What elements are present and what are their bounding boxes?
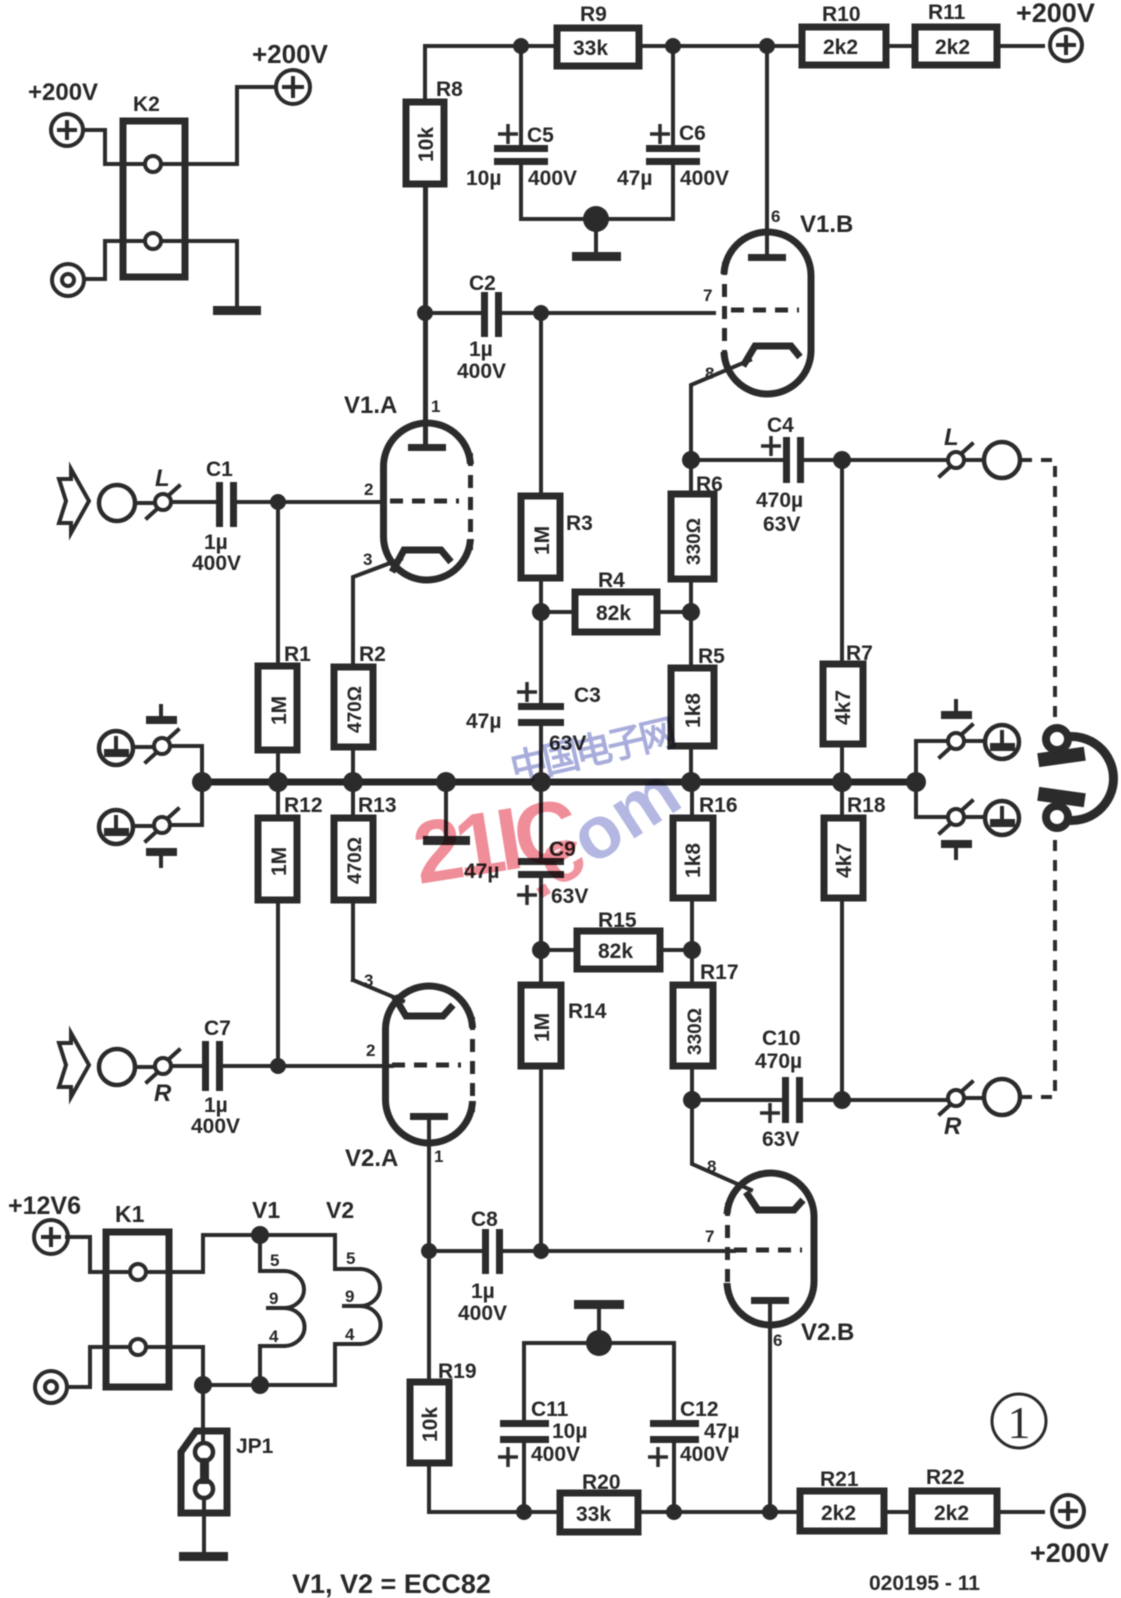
resistor R2	[334, 643, 386, 782]
wire R17 to V2.B cathode	[692, 1100, 751, 1190]
svg-text:1: 1	[431, 397, 440, 416]
node V1.B out	[682, 451, 700, 469]
node R17 C10	[683, 1091, 701, 1109]
output L socket	[984, 442, 1020, 478]
node heater bottom jumper	[194, 1376, 212, 1394]
wire 0V to K2 pin2	[84, 241, 123, 279]
svg-text:5: 5	[346, 1249, 355, 1268]
svg-text:1M: 1M	[268, 696, 291, 725]
svg-text:2k2: 2k2	[934, 1502, 969, 1525]
node heater top	[251, 1226, 269, 1244]
K2 pin 1	[145, 156, 161, 172]
0V terminal K2	[52, 264, 84, 296]
svg-text:C2: C2	[469, 272, 496, 295]
chassis terminal output L ground	[985, 725, 1019, 759]
node R3 R4	[532, 603, 550, 621]
wire +200V to K2	[83, 130, 123, 164]
resistor R17	[673, 950, 739, 1100]
svg-text:R16: R16	[699, 794, 738, 817]
wire output L ground stub	[964, 739, 984, 743]
input L arrow	[59, 469, 89, 533]
node C1 R1	[270, 494, 286, 510]
svg-text:C8: C8	[471, 1208, 498, 1231]
svg-text:1µ: 1µ	[469, 338, 493, 361]
+200V terminal left	[28, 79, 98, 146]
svg-text:V1, V2 = ECC82: V1, V2 = ECC82	[292, 1569, 491, 1598]
svg-text:82k: 82k	[598, 940, 633, 963]
svg-text:400V: 400V	[531, 1443, 580, 1466]
wire K1 pin2 to heater return	[169, 1347, 262, 1385]
heater V1	[252, 1197, 305, 1385]
svg-text:R11: R11	[928, 1, 966, 24]
wire bottom supply bus	[429, 1510, 1043, 1514]
svg-text:V2: V2	[326, 1197, 354, 1223]
resistor R20	[560, 1471, 638, 1532]
svg-text:47µ: 47µ	[466, 710, 501, 733]
svg-text:1M: 1M	[531, 1013, 554, 1042]
resistor R13	[334, 782, 397, 980]
svg-text:4: 4	[269, 1327, 279, 1346]
svg-text:V2.B: V2.B	[801, 1319, 854, 1346]
svg-text:R5: R5	[698, 645, 725, 668]
svg-text:V1: V1	[252, 1197, 280, 1223]
capacitor C3	[466, 612, 601, 782]
resistor R21	[800, 1468, 884, 1531]
node C4 R7	[833, 451, 851, 469]
svg-text:1µ: 1µ	[471, 1280, 495, 1303]
capacitor C8	[429, 1208, 734, 1325]
wire dashed headphone R	[1021, 835, 1055, 1097]
svg-text:R14: R14	[568, 1000, 607, 1023]
node C8 V2.A anode	[421, 1243, 437, 1259]
ground center bus	[423, 782, 470, 845]
V2.B cathode	[746, 1192, 803, 1210]
resistor R5	[671, 612, 725, 782]
wire output L pin to socket	[964, 458, 984, 462]
svg-text:47µ: 47µ	[704, 1420, 739, 1443]
wire center bus	[202, 779, 916, 786]
chassis terminal input L ground	[99, 731, 133, 765]
wire input L socket to pin	[136, 501, 155, 505]
svg-text:+200V: +200V	[28, 79, 98, 106]
triode V2.B	[705, 1157, 854, 1350]
svg-text:C4: C4	[767, 414, 794, 437]
connector pin input R ground	[146, 809, 178, 841]
capacitor C2	[425, 272, 724, 383]
node bus ground	[436, 772, 456, 792]
svg-text:47µ: 47µ	[617, 167, 652, 190]
svg-text:R1: R1	[284, 643, 311, 666]
V1.A cathode	[392, 550, 451, 572]
capacitor C4	[691, 414, 947, 536]
wire C5 C6 common	[521, 217, 673, 221]
svg-text:400V: 400V	[192, 552, 241, 575]
svg-text:1k8: 1k8	[682, 693, 705, 728]
svg-text:C11: C11	[531, 1398, 569, 1421]
svg-text:L: L	[155, 465, 170, 492]
wire input L ground to bus	[170, 746, 202, 782]
resistor R7	[823, 460, 873, 782]
chassis bar below input R ground	[146, 848, 177, 866]
node V1.B anode	[759, 38, 775, 54]
svg-text:C12: C12	[680, 1398, 719, 1421]
resistor R11	[915, 1, 997, 65]
resistor R12	[258, 782, 323, 1065]
svg-text:1µ: 1µ	[204, 1094, 228, 1117]
chassis bar below output R ground	[941, 840, 972, 858]
V1.A grid	[390, 499, 459, 504]
svg-text:400V: 400V	[458, 1302, 507, 1325]
connector K1	[106, 1201, 169, 1387]
svg-text:+200V: +200V	[252, 39, 329, 69]
+200V terminal top right	[1016, 0, 1095, 61]
node C2 R3	[533, 305, 549, 321]
svg-text:R: R	[154, 1080, 172, 1107]
wire output R pin to socket	[964, 1096, 984, 1100]
V2.B grid	[734, 1248, 802, 1253]
output R socket	[984, 1079, 1020, 1115]
svg-text:+200V: +200V	[1030, 1538, 1109, 1568]
node C7 R12	[270, 1058, 286, 1074]
svg-text:330Ω: 330Ω	[684, 518, 705, 565]
svg-text:63V: 63V	[763, 513, 800, 536]
headphone	[1037, 728, 1113, 828]
input R arrow	[59, 1033, 89, 1097]
chassis terminal input R ground	[99, 810, 133, 844]
resistor R14	[521, 950, 607, 1251]
svg-text:4k7: 4k7	[833, 843, 856, 878]
V1.B cathode	[743, 346, 800, 366]
svg-text:R8: R8	[436, 78, 463, 101]
V1.B grid	[731, 308, 799, 313]
svg-text:2k2: 2k2	[821, 1502, 856, 1525]
resistor R9	[557, 3, 639, 66]
svg-text:L: L	[944, 424, 959, 451]
K1 pin 1	[130, 1264, 146, 1280]
svg-text:JP1: JP1	[236, 1435, 274, 1458]
svg-text:2k2: 2k2	[935, 36, 970, 59]
node bus R2	[343, 772, 363, 792]
wire R13 to V2.A cathode	[353, 980, 403, 1001]
svg-text:1M: 1M	[268, 847, 291, 876]
wire K2 pin2 row	[123, 239, 185, 243]
connector pin R	[147, 1050, 179, 1107]
svg-text:020195 - 11: 020195 - 11	[869, 1572, 980, 1595]
capacitor C10	[692, 1027, 947, 1151]
ground K2	[213, 306, 261, 315]
node V2.B anode bus	[762, 1504, 778, 1520]
resistor R6	[671, 460, 723, 612]
node decoupling ground	[583, 206, 609, 232]
node bus R7	[832, 772, 852, 792]
svg-text:3: 3	[364, 971, 373, 990]
svg-text:400V: 400V	[680, 167, 729, 190]
V2.A anode	[410, 1113, 448, 1251]
svg-text:V1.A: V1.A	[344, 392, 397, 419]
triode V2.A	[345, 971, 482, 1172]
resistor R8	[406, 46, 463, 444]
svg-text:7: 7	[705, 1227, 714, 1246]
svg-text:C6: C6	[679, 122, 706, 145]
svg-text:470Ω: 470Ω	[345, 686, 366, 733]
svg-text:1: 1	[1008, 1397, 1031, 1448]
connector pin output L	[940, 424, 972, 476]
svg-text:2k2: 2k2	[823, 36, 858, 59]
svg-text:C7: C7	[204, 1017, 231, 1040]
wire +12V6 to K1	[67, 1237, 106, 1272]
node bus C3	[531, 772, 551, 792]
svg-text:+200V: +200V	[1016, 0, 1095, 28]
wire K2 pin1 to +200V top	[185, 87, 276, 164]
svg-text:R17: R17	[700, 961, 739, 984]
node bus R1	[268, 772, 288, 792]
svg-text:330Ω: 330Ω	[685, 1008, 706, 1055]
wire input R ground to bus	[170, 782, 202, 825]
connector pin output R ground	[940, 801, 972, 833]
triode V1.A	[344, 392, 480, 580]
svg-text:1M: 1M	[531, 526, 554, 555]
wire output grounds to bus	[916, 741, 947, 817]
wire V1.A cathode to R2	[353, 559, 401, 667]
+200V terminal top	[252, 39, 329, 104]
wire V1.B cathode to output node	[691, 360, 750, 460]
triode V1.B	[703, 207, 853, 394]
svg-text:8: 8	[707, 1157, 716, 1176]
input L socket	[99, 485, 135, 521]
capacitor C11	[498, 1343, 587, 1512]
wire C11 C12 common	[524, 1341, 674, 1345]
svg-text:+12V6: +12V6	[8, 1192, 81, 1220]
heater V2	[260, 1197, 381, 1385]
jumper JP1	[181, 1385, 274, 1513]
connector pin output L ground	[940, 725, 972, 757]
resistor R15	[541, 909, 692, 969]
svg-text:400V: 400V	[457, 360, 506, 383]
node C2 tap	[417, 305, 433, 321]
svg-text:2: 2	[364, 480, 373, 499]
svg-text:R6: R6	[696, 473, 723, 496]
svg-text:400V: 400V	[680, 1443, 729, 1466]
wire K1 pin1 to heater rail	[169, 1235, 260, 1272]
+200V terminal bottom right	[1030, 1495, 1109, 1568]
svg-text:V1.B: V1.B	[800, 211, 853, 238]
wire input L ground stub	[134, 745, 154, 749]
svg-text:10µ: 10µ	[552, 1420, 587, 1443]
node C10 R18	[833, 1091, 851, 1109]
node C6 top	[665, 38, 681, 54]
svg-text:4k7: 4k7	[832, 690, 855, 725]
wire top supply bus	[425, 44, 1043, 48]
capacitor C9	[464, 782, 588, 950]
node heater bottom	[251, 1376, 269, 1394]
svg-text:7: 7	[703, 286, 712, 305]
+12V6 terminal	[8, 1192, 81, 1254]
resistor R1	[258, 502, 311, 782]
wire K2 pin1 row	[123, 162, 185, 166]
node C12 bottom	[666, 1504, 682, 1520]
capacitor C12	[648, 1343, 739, 1512]
capacitor C7	[172, 1017, 392, 1138]
input R socket	[99, 1049, 135, 1085]
svg-text:K2: K2	[133, 93, 160, 116]
node R15 R16	[683, 941, 701, 959]
wire K1 pin1 row	[106, 1270, 169, 1274]
node bus right	[906, 772, 926, 792]
wire dashed headphone L	[1021, 460, 1055, 722]
svg-text:C1: C1	[206, 458, 233, 481]
V1.B anode	[748, 46, 786, 261]
K1 pin 2	[130, 1339, 146, 1355]
wire K1 pin2 row	[106, 1345, 169, 1349]
ground JP1	[179, 1513, 228, 1561]
svg-text:9: 9	[269, 1289, 278, 1308]
figure number 1	[992, 1394, 1046, 1448]
resistor R3	[521, 313, 593, 612]
resistor R4	[541, 569, 691, 632]
chassis terminal output R ground	[985, 801, 1019, 835]
connector pin output R	[940, 1082, 972, 1140]
connector pin L	[147, 465, 179, 518]
svg-text:R9: R9	[580, 3, 607, 26]
capacitor C5	[466, 46, 577, 219]
connector pin input L ground	[146, 730, 178, 762]
resistor R10	[802, 3, 886, 65]
K2 pin 2	[145, 233, 161, 249]
connector K2	[123, 93, 185, 277]
svg-text:3: 3	[363, 550, 372, 569]
svg-text:4: 4	[345, 1325, 355, 1344]
watermark 21IC	[406, 712, 694, 914]
svg-text:R2: R2	[359, 643, 386, 666]
svg-text:C3: C3	[574, 684, 601, 707]
capacitor C6	[617, 46, 729, 219]
capacitor C1	[172, 458, 384, 575]
wire output R ground stub	[964, 815, 984, 819]
svg-text:R19: R19	[438, 1360, 477, 1383]
svg-text:2: 2	[366, 1041, 375, 1060]
svg-text:10µ: 10µ	[466, 167, 501, 190]
svg-text:K1: K1	[115, 1201, 145, 1227]
svg-text:1µ: 1µ	[204, 531, 228, 554]
svg-text:400V: 400V	[528, 167, 577, 190]
svg-text:R: R	[944, 1113, 962, 1140]
resistor R16	[673, 782, 738, 950]
svg-text:9: 9	[345, 1287, 354, 1306]
node C8 R14	[533, 1243, 549, 1259]
svg-text:R18: R18	[847, 794, 886, 817]
node bus R5	[681, 772, 701, 792]
svg-text:1: 1	[434, 1147, 443, 1166]
resistor R22	[912, 1466, 997, 1531]
svg-text:C10: C10	[762, 1027, 801, 1050]
wire input R socket to pin	[136, 1065, 155, 1069]
node C5 top	[513, 38, 529, 54]
ground bottom decoupling	[574, 1300, 624, 1343]
svg-text:63V: 63V	[762, 1128, 799, 1151]
V2.B anode	[751, 1297, 789, 1512]
svg-text:10k: 10k	[415, 127, 438, 162]
chassis bar above input L ground	[146, 706, 177, 724]
resistor R19	[410, 1251, 477, 1512]
wire input R ground stub	[134, 824, 154, 828]
node C11 bottom	[516, 1504, 532, 1520]
svg-text:C5: C5	[527, 124, 554, 147]
svg-text:V2.A: V2.A	[345, 1145, 398, 1172]
resistor R18	[824, 782, 886, 1100]
0V terminal K1	[35, 1371, 67, 1403]
wire K2 pin2 to ground	[185, 241, 237, 306]
svg-text:6: 6	[771, 207, 780, 226]
svg-text:10k: 10k	[419, 1407, 442, 1442]
svg-text:82k: 82k	[596, 602, 631, 625]
V1.A anode	[408, 184, 446, 451]
svg-text:R4: R4	[598, 569, 625, 592]
svg-text:1k8: 1k8	[682, 843, 705, 878]
svg-text:5: 5	[270, 1251, 279, 1270]
node R4 R6	[682, 603, 700, 621]
svg-text:R21: R21	[820, 1468, 859, 1491]
node C9 R15	[532, 941, 550, 959]
svg-text:33k: 33k	[573, 37, 608, 60]
V2.A grid	[392, 1063, 461, 1068]
wire 0V to K1 pin2	[67, 1347, 106, 1387]
svg-text:470Ω: 470Ω	[345, 837, 366, 884]
svg-text:470µ: 470µ	[755, 1050, 802, 1073]
svg-text:R3: R3	[566, 512, 593, 535]
svg-text:6: 6	[773, 1331, 782, 1350]
chassis bar above output L ground	[941, 701, 972, 719]
ground top decoupling	[572, 219, 621, 261]
node bottom decoupling ground	[586, 1330, 612, 1356]
svg-text:R22: R22	[926, 1466, 965, 1489]
svg-text:470µ: 470µ	[756, 489, 803, 512]
svg-text:R13: R13	[358, 794, 397, 817]
svg-text:R12: R12	[284, 794, 323, 817]
svg-text:R7: R7	[846, 642, 873, 665]
svg-text:33k: 33k	[576, 1503, 611, 1526]
svg-text:400V: 400V	[191, 1115, 240, 1138]
V2.A cathode	[394, 996, 453, 1016]
svg-text:R20: R20	[582, 1471, 621, 1494]
svg-text:R15: R15	[598, 909, 637, 932]
node bus left	[192, 772, 212, 792]
svg-text:R10: R10	[822, 3, 861, 26]
